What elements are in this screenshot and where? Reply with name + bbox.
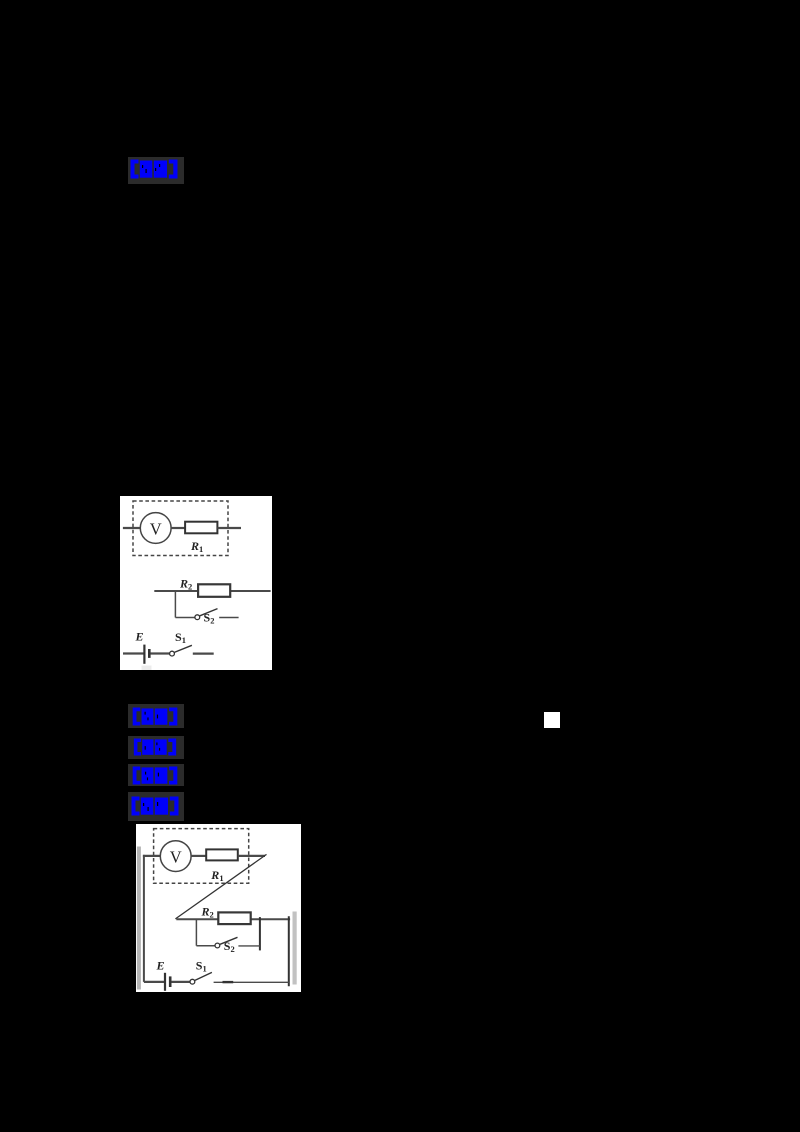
battery E long plate (163, 972, 165, 990)
junction vertical wire (195, 919, 197, 946)
switch S1 lever (194, 972, 211, 980)
battery E short plate (148, 649, 151, 658)
battery E short plate (168, 976, 171, 987)
wire voltmeter to resistor (171, 527, 185, 529)
bottom wire battery left (143, 980, 164, 982)
scan smudge (142, 666, 152, 671)
circuit figure 2 (answer) white panel (136, 824, 301, 993)
wire right of S1 (193, 652, 214, 654)
switch S1 lever (174, 645, 192, 652)
wire right of S2 (238, 944, 260, 946)
label 【解析】 blue text (130, 738, 180, 756)
battery E long plate (143, 645, 145, 664)
svg-text:V: V (150, 520, 162, 539)
wire right of R1 (237, 854, 264, 856)
label 【点评】 background (128, 792, 184, 821)
junction vertical wire (174, 591, 176, 618)
wire to switch S2 (196, 944, 214, 946)
wire right of S2 (219, 617, 238, 619)
dashed box around voltmeter branch (133, 501, 228, 556)
switch S2 lever (200, 609, 218, 616)
white formula square (544, 712, 560, 728)
svg-text:E: E (135, 630, 144, 644)
svg-text:R2: R2 (200, 904, 213, 919)
wire to switch S2 (175, 617, 194, 619)
bottom wire thicker segment (222, 980, 233, 982)
svg-text:S2: S2 (223, 939, 234, 954)
circuit figure 1 (question) white panel (120, 496, 272, 670)
wire R2 branch main (154, 590, 270, 592)
svg-text:V: V (169, 847, 181, 866)
battery row left wire (123, 652, 144, 654)
switch S1 pivot (170, 651, 175, 656)
switch S2 pivot (215, 943, 220, 948)
label 【答案】 background (128, 704, 184, 728)
svg-text:S2: S2 (204, 611, 215, 626)
wire R2 branch main (176, 918, 290, 920)
svg-text:R1: R1 (190, 539, 203, 554)
switch S2 pivot (195, 615, 200, 620)
label 【答案】 blue text (130, 707, 180, 726)
right scan shadow strip (292, 911, 296, 984)
voltmeter V (140, 513, 171, 544)
dashed box around voltmeter branch (153, 828, 248, 883)
label 【题文】 blue text (129, 159, 179, 179)
connecting diagonal wire (175, 854, 266, 919)
voltmeter V (160, 840, 191, 871)
left scan shadow strip (136, 846, 140, 989)
resistor R2 (218, 912, 250, 924)
wire right lead (217, 527, 241, 529)
svg-text:S1: S1 (195, 958, 206, 973)
svg-text:R2: R2 (179, 577, 192, 592)
wire battery to S1 (150, 652, 169, 654)
label 【考点】 background (128, 764, 184, 787)
switch S2 lever (220, 937, 238, 944)
wire voltmeter to resistor (191, 854, 206, 856)
resistor R1 (206, 849, 238, 860)
wire to voltmeter (142, 854, 160, 856)
svg-text:S1: S1 (175, 630, 186, 645)
resistor R2 (198, 584, 230, 597)
label 【点评】 blue text (130, 796, 180, 816)
parallel right bar (258, 917, 260, 950)
resistor R1 (185, 522, 217, 534)
label 【考点】 blue text (130, 766, 180, 785)
wire left lead (123, 527, 141, 529)
label 【解析】 background (128, 736, 184, 759)
svg-text:R1: R1 (210, 868, 223, 883)
switch S1 pivot (190, 979, 195, 984)
far right vertical wire (287, 916, 289, 986)
svg-text:E: E (155, 958, 164, 972)
label 【题文】 background (128, 157, 185, 184)
left vertical wire (142, 854, 144, 981)
wire battery to S1 (171, 980, 190, 982)
bottom wire right of S1 (213, 981, 288, 983)
